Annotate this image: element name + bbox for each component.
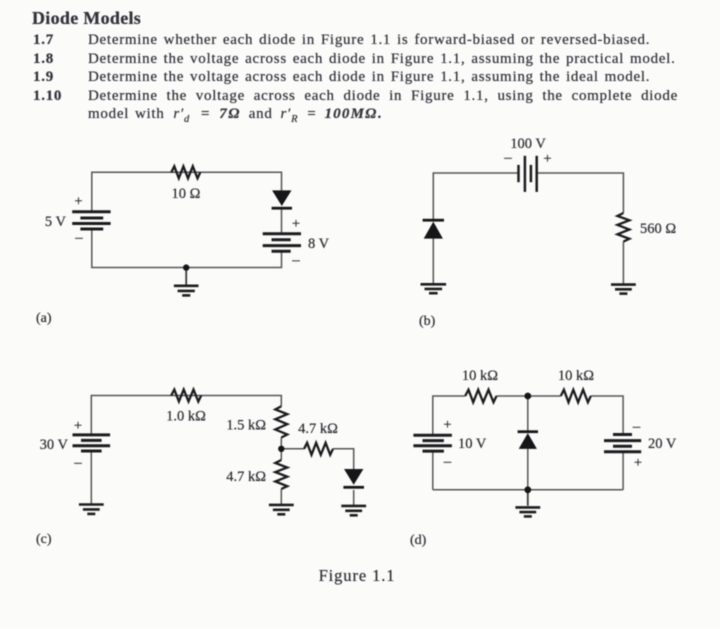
svg-text:+: + (292, 216, 300, 232)
svg-text:(d): (d) (410, 533, 427, 548)
svg-text:4.7 kΩ: 4.7 kΩ (226, 469, 266, 485)
svg-text:–: – (632, 419, 641, 435)
svg-text:(a): (a) (36, 311, 52, 326)
svg-text:5 V: 5 V (45, 214, 67, 230)
svg-text:(c): (c) (36, 532, 52, 547)
svg-text:10 kΩ: 10 kΩ (558, 368, 594, 384)
svg-text:100 V: 100 V (510, 136, 546, 152)
svg-text:10 kΩ: 10 kΩ (462, 368, 498, 384)
svg-text:–: – (74, 230, 83, 246)
svg-text:1.5 kΩ: 1.5 kΩ (226, 418, 266, 434)
svg-text:560 Ω: 560 Ω (640, 221, 676, 237)
svg-text:1.0 kΩ: 1.0 kΩ (166, 409, 206, 425)
svg-text:+: + (74, 194, 82, 210)
svg-text:8 V: 8 V (308, 236, 330, 252)
svg-text:10 V: 10 V (458, 436, 487, 452)
svg-text:Figure 1.1: Figure 1.1 (319, 566, 396, 585)
svg-text:–: – (503, 150, 512, 166)
svg-text:4.7 kΩ: 4.7 kΩ (298, 421, 338, 437)
svg-text:+: + (74, 418, 82, 434)
svg-text:+: + (443, 417, 451, 433)
svg-text:10 Ω: 10 Ω (172, 186, 201, 202)
svg-text:20 V: 20 V (648, 436, 677, 452)
svg-text:+: + (634, 455, 642, 471)
svg-text:–: – (73, 455, 82, 471)
svg-text:–: – (443, 454, 452, 470)
svg-text:30 V: 30 V (40, 437, 69, 453)
svg-text:(b): (b) (419, 314, 436, 329)
svg-text:+: + (543, 151, 551, 167)
svg-text:–: – (291, 253, 300, 269)
